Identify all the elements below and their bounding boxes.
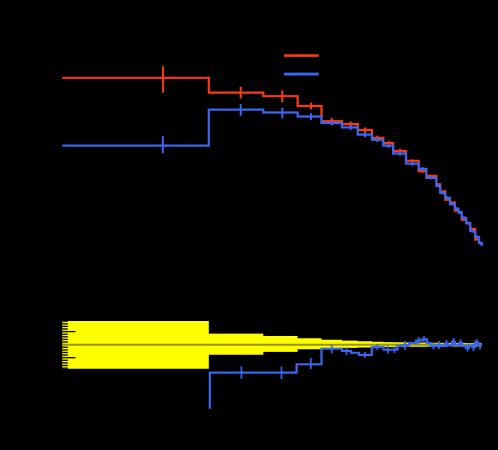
top panel blue histogram [62,110,481,246]
ratio center line at 1.0 [62,344,482,346]
top panel red histogram [62,78,481,243]
ratio panel y-axis ticks (black, visible over yellow) [62,319,75,371]
legend red entry [284,54,319,57]
red error bars [162,66,164,93]
blue error bars [162,136,164,153]
legend blue entry [284,73,319,76]
ratio error bars [240,366,242,379]
ratio blue histogram [210,339,482,408]
ratio panel yellow uncertainty band [62,321,482,369]
